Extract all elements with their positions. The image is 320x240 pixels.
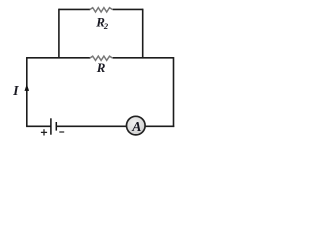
- battery positive plate (long): [50, 118, 52, 134]
- wire: left vertical (current branch): [26, 57, 28, 126]
- svg-text:I: I: [12, 84, 19, 99]
- wire: top branch left vertical: [58, 9, 60, 58]
- wire: top branch left segment (node B to R2): [59, 8, 90, 10]
- wire: bottom right segment (ammeter to corner): [145, 125, 174, 127]
- svg-text:A: A: [131, 119, 141, 134]
- wire: right vertical: [173, 57, 175, 127]
- svg-text:R: R: [96, 60, 106, 75]
- wire: middle row right segment (R to node D): [113, 57, 174, 59]
- svg-text:2: 2: [103, 21, 109, 31]
- battery negative plate (short): [55, 122, 57, 131]
- resistor R2 zigzag: [90, 8, 113, 12]
- wire: bottom middle segment (battery to ammeter): [56, 125, 126, 127]
- wire: top branch right vertical: [142, 9, 144, 58]
- resistor R zigzag: [90, 56, 113, 60]
- wire: middle row left segment (node A to R): [27, 57, 90, 59]
- label minus: [59, 131, 64, 133]
- ammeter A (circle): [127, 116, 146, 135]
- current arrow (upward): [25, 84, 30, 91]
- wire: bottom left segment (to battery +): [26, 125, 51, 127]
- label +: [41, 129, 47, 135]
- wire: top branch right segment (R2 to node C): [113, 8, 143, 10]
